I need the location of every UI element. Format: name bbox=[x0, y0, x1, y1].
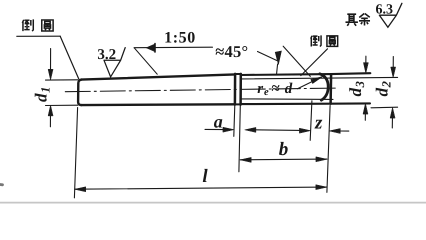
dimension a left arrowhead bbox=[223, 127, 234, 132]
pin bottom edge bbox=[81, 103, 235, 106]
shoulder top segment bbox=[235, 73, 241, 75]
shoulder bottom segment bbox=[235, 103, 241, 105]
pin top edge (taper 1:50) bbox=[81, 74, 235, 79]
daoyuan right leader line bbox=[301, 49, 328, 76]
taper symbol solid triangle bbox=[146, 44, 155, 52]
svg-text:d2: d2 bbox=[373, 81, 394, 96]
svg-text:≈45°: ≈45° bbox=[215, 42, 248, 61]
daoyuan left leader diagonal to pin corner bbox=[60, 36, 79, 79]
dimension d1 top extension line bbox=[46, 79, 78, 81]
re approx d leader arrowhead bbox=[311, 77, 323, 84]
label daoyuan (left) glyph 倒 bbox=[22, 19, 33, 31]
dimension d2 bottom extension line bbox=[371, 106, 398, 109]
approx45 leader line from text bbox=[258, 52, 277, 61]
dimension z right arrowhead bbox=[329, 129, 340, 134]
dimension b left arrowhead bbox=[240, 157, 251, 162]
dimension l left arrowhead bbox=[75, 187, 86, 192]
daoyuan left leader underline bbox=[17, 35, 60, 37]
label daoyuan (left) glyph 圆 bbox=[42, 20, 53, 31]
dimension d1 top arrow line bbox=[50, 49, 52, 75]
svg-text:d1: d1 bbox=[32, 87, 53, 102]
svg-text:re≈d: re≈d bbox=[257, 81, 293, 98]
thread minor bottom line bbox=[241, 98, 333, 101]
svg-text:z: z bbox=[314, 112, 323, 133]
rounded screw end arc (re) bbox=[320, 74, 328, 100]
scan speck left edge bbox=[0, 183, 3, 186]
dimension d1 bottom extension line bbox=[46, 104, 78, 106]
shared arrow shaft between a and z bbox=[254, 129, 301, 132]
roughness 6.3 symbol (top right) bbox=[379, 3, 402, 27]
svg-text:d3: d3 bbox=[346, 81, 367, 96]
dimension d1 bottom arrow line bbox=[49, 111, 51, 127]
dimension b right arrowhead bbox=[316, 157, 327, 162]
dimension d1 top arrowhead bbox=[48, 69, 53, 80]
thread minor top line (continues as d2 top extension) bbox=[241, 77, 398, 79]
dimension d3 bottom arrow bbox=[364, 110, 366, 121]
svg-text:l: l bbox=[202, 166, 208, 187]
dimension d1 bottom arrowhead bbox=[48, 105, 53, 116]
note qiyu glyph 其 bbox=[345, 14, 357, 26]
dimension a right arrowhead bbox=[245, 127, 256, 132]
dimension a left extension (shoulder line extended) bbox=[234, 105, 235, 136]
dimension l right arrowhead bbox=[316, 185, 327, 190]
dimension d2 bottom arrow bbox=[391, 114, 393, 129]
thread major top line (continues as d3 top extension) bbox=[241, 73, 371, 75]
dimension b line bbox=[240, 158, 327, 161]
dimension z left arrowhead bbox=[299, 128, 310, 133]
dimension z right arrow shaft bbox=[340, 130, 349, 132]
svg-text:6.3: 6.3 bbox=[376, 2, 394, 17]
bottom page rule (light gray) bbox=[0, 202, 426, 204]
dimension b left extension line bbox=[239, 106, 240, 172]
dimension l line bbox=[75, 187, 327, 189]
taper 1:50 leader diagonal to pin surface bbox=[134, 48, 157, 74]
pin left end edge (rounded) bbox=[78, 80, 81, 106]
shared right extension line (z, b, l) bbox=[327, 106, 330, 193]
note qiyu glyph 余 bbox=[359, 13, 370, 25]
label daoyuan (right) glyph 圆 bbox=[327, 36, 338, 46]
approx45 arrowhead (pointing down to chamfer) bbox=[275, 51, 281, 65]
dimension label d1 (rotated) bbox=[32, 87, 53, 102]
svg-text:b: b bbox=[279, 139, 289, 160]
label daoyuan (right) glyph 倒 bbox=[311, 35, 321, 46]
dimension a left arrow shaft bbox=[205, 128, 226, 130]
dimension d2 top arrow bbox=[392, 57, 394, 72]
pin end vertical edge bbox=[329, 74, 332, 104]
dimension d3 top arrow bbox=[365, 56, 367, 67]
taper 1:50 leader horizontal line bbox=[134, 46, 212, 49]
shoulder vertical 1 (cone large end) bbox=[234, 74, 237, 105]
approx45 arrow stub to surface bbox=[277, 64, 278, 74]
centerline (dash-dot axis) bbox=[65, 88, 336, 92]
chamfer indicator line (45 deg) bbox=[283, 46, 310, 76]
dimension l left extension line bbox=[74, 108, 77, 198]
shoulder vertical 2 (thread start) bbox=[239, 74, 242, 105]
dimension z left extension line bbox=[310, 101, 312, 141]
dimension label d3 (rotated) bbox=[346, 81, 367, 96]
roughness 3.2 symbol on pin top bbox=[104, 48, 125, 77]
svg-text:a: a bbox=[214, 112, 223, 132]
svg-text:3.2: 3.2 bbox=[97, 47, 116, 63]
re approx d leader line bbox=[298, 77, 322, 88]
dimension label d2 (rotated) bbox=[373, 81, 394, 96]
thread major bottom line (continues as d3 bottom extension) bbox=[241, 102, 370, 105]
svg-text:1:50: 1:50 bbox=[164, 29, 196, 46]
